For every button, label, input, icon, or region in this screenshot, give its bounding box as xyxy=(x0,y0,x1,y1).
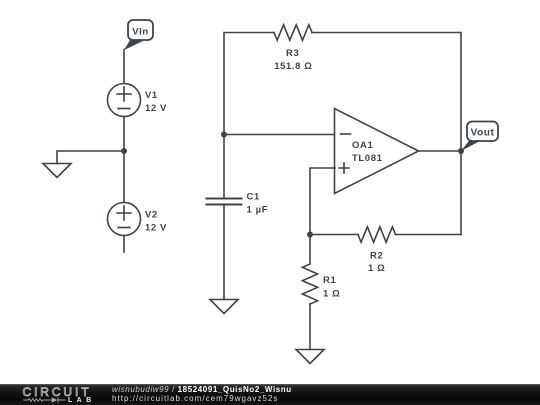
footer logo resistor-diode glyph xyxy=(0,384,110,405)
footer url text xyxy=(112,394,278,404)
wire VIn flag to V1 top xyxy=(123,50,125,84)
wire top rail right segment xyxy=(312,33,461,235)
svg-text:Vout: Vout xyxy=(471,128,495,139)
wire bottom rail right of R2 xyxy=(396,234,462,236)
svg-text:TL081: TL081 xyxy=(352,153,383,164)
resistor R2 xyxy=(358,227,396,242)
wire op-amp output to Vout node xyxy=(419,150,462,152)
svg-text:R1: R1 xyxy=(323,275,336,286)
svg-text:V1: V1 xyxy=(145,90,158,101)
svg-text:1 Ω: 1 Ω xyxy=(368,263,385,274)
node flag Vout xyxy=(461,122,498,152)
ground GND2 xyxy=(210,300,238,314)
node junction R1/R2/non-inverting xyxy=(307,232,313,238)
footer bar xyxy=(0,384,540,405)
label R3 value xyxy=(274,48,312,72)
resistor R1 xyxy=(302,264,317,304)
svg-text:12 V: 12 V xyxy=(145,103,167,114)
wire non-inverting input from node up to op-amp xyxy=(310,168,335,235)
svg-text:OA1: OA1 xyxy=(352,140,373,151)
footer logo LAB xyxy=(68,397,96,404)
label OA1 TL081 xyxy=(352,140,383,164)
wire R1 bottom to GND3 xyxy=(309,304,311,350)
wire node to R1 top xyxy=(309,235,311,265)
svg-text:C1: C1 xyxy=(247,191,260,202)
ground GND1 xyxy=(43,164,71,178)
ground GND3 xyxy=(296,350,324,364)
svg-text:151.8 Ω: 151.8 Ω xyxy=(274,61,312,72)
wire top rail left segment xyxy=(224,33,274,199)
svg-text:12 V: 12 V xyxy=(145,223,167,234)
svg-text:1 Ω: 1 Ω xyxy=(323,288,340,299)
svg-text:1 µF: 1 µF xyxy=(247,204,269,215)
svg-text:VIn: VIn xyxy=(132,26,149,37)
node junction V1/V2/ground xyxy=(121,148,127,154)
wire inverting input from node to op-amp xyxy=(224,134,335,136)
wire V1 bottom through ground junction to V2 top xyxy=(123,117,125,203)
wire C1 bottom to GND2 xyxy=(223,206,225,300)
op-amp OA1 xyxy=(335,109,419,194)
label V2 value xyxy=(145,209,167,233)
svg-text:R2: R2 xyxy=(370,250,383,261)
wire ground branch from node to GND1 xyxy=(57,151,124,164)
svg-text:R3: R3 xyxy=(286,48,299,59)
svg-text:V2: V2 xyxy=(145,209,158,220)
label R2 value xyxy=(368,250,385,274)
voltage source V1 xyxy=(108,84,141,117)
node junction Vout xyxy=(458,148,464,154)
voltage source V2 xyxy=(108,203,141,236)
capacitor C1 xyxy=(207,199,242,205)
node junction inverting input / C1 xyxy=(221,132,227,138)
footer user / title text xyxy=(112,385,292,395)
label R1 value xyxy=(323,275,340,299)
label V1 value xyxy=(145,90,167,114)
wire bottom rail left of R2 xyxy=(310,234,358,236)
label C1 value xyxy=(247,191,269,215)
resistor R3 xyxy=(274,25,312,40)
node flag VIn xyxy=(124,20,153,50)
wire stub below V2 xyxy=(123,236,125,253)
footer logo CIRCUIT xyxy=(23,385,92,399)
